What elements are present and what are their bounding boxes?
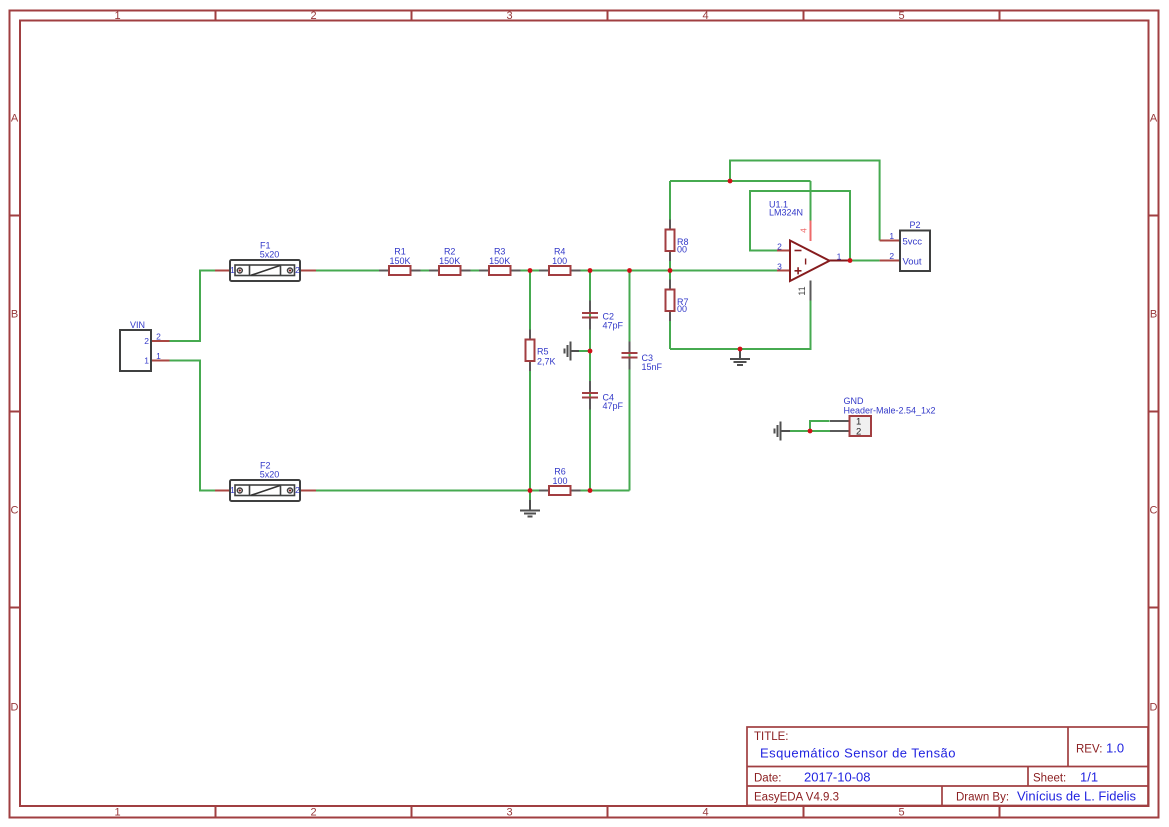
svg-text:100: 100 xyxy=(552,476,567,486)
svg-text:1: 1 xyxy=(837,251,842,261)
svg-text:1/1: 1/1 xyxy=(1080,770,1098,785)
svg-text:GND: GND xyxy=(844,396,865,406)
svg-text:4: 4 xyxy=(702,10,708,22)
svg-text:2: 2 xyxy=(310,10,316,22)
svg-text:D: D xyxy=(1150,702,1158,714)
svg-text:Vinícius de L. Fidelis: Vinícius de L. Fidelis xyxy=(1017,789,1136,804)
svg-text:100: 100 xyxy=(552,256,567,266)
svg-text:3: 3 xyxy=(777,261,782,271)
svg-text:2: 2 xyxy=(777,241,782,251)
svg-text:A: A xyxy=(11,113,19,125)
svg-text:R5: R5 xyxy=(537,346,549,356)
svg-text:1.0: 1.0 xyxy=(1106,741,1124,756)
svg-text:2017-10-08: 2017-10-08 xyxy=(804,770,871,785)
svg-text:3: 3 xyxy=(506,807,512,819)
svg-text:2,7K: 2,7K xyxy=(537,356,556,366)
svg-text:1: 1 xyxy=(230,265,235,275)
svg-text:1: 1 xyxy=(114,10,120,22)
svg-text:Vout: Vout xyxy=(903,256,922,267)
svg-text:150K: 150K xyxy=(489,256,510,266)
svg-text:B: B xyxy=(1150,309,1157,321)
svg-text:1: 1 xyxy=(114,807,120,819)
svg-text:47pF: 47pF xyxy=(603,320,624,330)
svg-text:1: 1 xyxy=(889,231,894,241)
svg-text:REV:: REV: xyxy=(1076,744,1102,756)
svg-text:EasyEDA V4.9.3: EasyEDA V4.9.3 xyxy=(754,792,839,804)
svg-text:Date:: Date: xyxy=(754,773,782,785)
svg-text:150K: 150K xyxy=(439,256,460,266)
svg-text:4: 4 xyxy=(702,807,708,819)
svg-text:5x20: 5x20 xyxy=(260,250,280,260)
svg-text:C: C xyxy=(1150,505,1158,517)
svg-text:2: 2 xyxy=(310,807,316,819)
svg-text:2: 2 xyxy=(856,426,861,437)
svg-text:C: C xyxy=(11,505,19,517)
svg-text:5x20: 5x20 xyxy=(260,470,280,480)
svg-text:00: 00 xyxy=(677,304,687,314)
svg-text:2: 2 xyxy=(156,332,161,342)
svg-text:B: B xyxy=(11,309,18,321)
svg-text:R6: R6 xyxy=(554,466,566,476)
svg-text:1: 1 xyxy=(230,485,235,495)
svg-text:2: 2 xyxy=(295,265,300,275)
svg-text:150K: 150K xyxy=(389,256,410,266)
svg-text:5: 5 xyxy=(898,807,904,819)
svg-text:Esquemático Sensor de Tensão: Esquemático Sensor de Tensão xyxy=(760,746,956,761)
svg-text:VIN: VIN xyxy=(130,320,145,330)
svg-text:A: A xyxy=(1150,113,1158,125)
svg-text:P2: P2 xyxy=(909,220,920,230)
svg-text:D: D xyxy=(11,702,19,714)
svg-text:Header-Male-2.54_1x2: Header-Male-2.54_1x2 xyxy=(844,405,936,415)
svg-text:47pF: 47pF xyxy=(603,401,624,411)
svg-text:3: 3 xyxy=(506,10,512,22)
svg-text:5vcc: 5vcc xyxy=(903,236,923,247)
svg-text:1: 1 xyxy=(144,356,149,366)
svg-text:1: 1 xyxy=(156,351,161,361)
svg-text:15nF: 15nF xyxy=(642,362,663,372)
svg-text:2: 2 xyxy=(295,485,300,495)
svg-text:4: 4 xyxy=(798,228,808,233)
svg-text:2: 2 xyxy=(889,251,894,261)
svg-text:2: 2 xyxy=(144,336,149,346)
svg-text:5: 5 xyxy=(898,10,904,22)
svg-text:Sheet:: Sheet: xyxy=(1033,773,1066,785)
svg-text:LM324N: LM324N xyxy=(769,208,803,218)
svg-text:Drawn By:: Drawn By: xyxy=(956,792,1009,804)
svg-text:11: 11 xyxy=(797,286,807,295)
svg-text:00: 00 xyxy=(677,245,687,255)
svg-text:TITLE:: TITLE: xyxy=(754,731,789,743)
